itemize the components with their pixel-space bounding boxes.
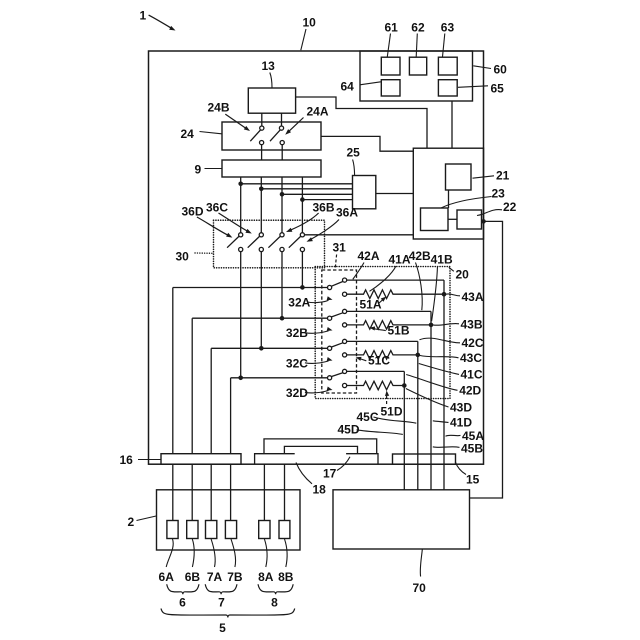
label 45B leader xyxy=(433,442,484,456)
junction dot wire 2 xyxy=(259,187,264,192)
label 32B with arrow xyxy=(286,326,333,340)
label 23 leader xyxy=(441,187,505,209)
svg-text:60: 60 xyxy=(494,63,508,77)
svg-text:2: 2 xyxy=(128,515,135,529)
wire switch 24B to box 9 xyxy=(261,145,263,160)
svg-text:51C: 51C xyxy=(368,354,390,368)
label 24A with arrow xyxy=(284,105,329,137)
svg-text:36D: 36D xyxy=(182,205,204,219)
label 42B leader xyxy=(409,249,431,310)
label 6B leader xyxy=(185,539,201,584)
svg-text:8B: 8B xyxy=(278,570,294,584)
wire junction 2 to box 25 xyxy=(261,188,352,190)
label 31 dashed leader xyxy=(333,241,347,269)
dashed box 31 xyxy=(322,270,357,393)
label 7A leader xyxy=(207,539,223,584)
svg-text:24B: 24B xyxy=(208,101,230,115)
brace group 7 xyxy=(205,584,237,609)
wire left bus C down to bar 16 xyxy=(210,348,212,453)
junction dot wire 1 xyxy=(238,182,243,187)
junction dot wire 3 xyxy=(280,192,285,197)
junction dot row feed 36C xyxy=(259,346,264,351)
label 43B leader xyxy=(433,318,483,332)
sub-box 62 xyxy=(409,57,426,75)
label 36B with arrow xyxy=(285,201,335,234)
svg-text:7A: 7A xyxy=(207,570,223,584)
label 51C with arrow xyxy=(355,354,390,368)
resistor 51B xyxy=(347,321,431,330)
wire bar16 to terminal 7A xyxy=(210,464,212,520)
svg-text:6: 6 xyxy=(179,596,186,610)
dotted box 30 xyxy=(214,220,325,268)
label 42A leader xyxy=(353,249,380,279)
wire switch 36A down to row xyxy=(301,252,303,288)
svg-text:36C: 36C xyxy=(206,201,228,215)
wire box21 to box23 xyxy=(448,190,450,208)
resistor 51D xyxy=(347,381,405,390)
bar 17 left segment xyxy=(255,454,295,465)
wire box13 to controller box staircase xyxy=(296,97,427,148)
svg-text:51B: 51B xyxy=(388,324,410,338)
wire bar16 to terminal 6B xyxy=(191,464,193,520)
sub-box 61 xyxy=(381,57,400,75)
junction dot row feed 36D xyxy=(238,376,243,381)
wire bar16 to terminal 7B xyxy=(230,464,232,520)
svg-text:30: 30 xyxy=(176,250,190,264)
wire bar16 to terminal 6A xyxy=(172,464,174,520)
switch 32A xyxy=(328,278,347,296)
svg-text:43C: 43C xyxy=(460,351,482,365)
svg-text:21: 21 xyxy=(496,169,510,183)
wire box22 to border node xyxy=(482,220,484,222)
wire row A input from left bus xyxy=(173,287,328,289)
label 10 leader xyxy=(301,16,316,51)
box 9 xyxy=(222,160,321,177)
label 25 leader xyxy=(347,146,361,176)
label 36A with arrow xyxy=(306,206,359,244)
wire node to box 70 xyxy=(470,221,503,498)
label 51A with arrow xyxy=(360,295,388,312)
svg-text:41D: 41D xyxy=(450,416,472,430)
wire switch 24A to box 9 xyxy=(281,145,283,160)
box 2 xyxy=(157,490,301,550)
label 42C leader xyxy=(420,336,484,350)
label 9 leader xyxy=(195,163,222,177)
wire box13 to switch 24A xyxy=(281,113,283,126)
wire bar17 to terminal 8A xyxy=(263,464,265,520)
box 13 xyxy=(248,88,295,113)
connector cover 18 outer xyxy=(264,439,377,454)
svg-text:62: 62 xyxy=(411,21,425,35)
switch 24A xyxy=(270,126,284,145)
junction dot 43C xyxy=(416,353,421,358)
svg-text:18: 18 xyxy=(313,483,327,497)
svg-text:22: 22 xyxy=(503,200,517,214)
resistor 51C xyxy=(347,351,418,360)
label 32D with arrow xyxy=(286,386,333,400)
switch 32D xyxy=(328,369,347,387)
wire left bus B down to bar 16 xyxy=(191,318,193,454)
svg-text:45C: 45C xyxy=(357,410,379,424)
bar 16 xyxy=(161,454,241,465)
wire direct path 42A xyxy=(347,279,444,281)
svg-text:9: 9 xyxy=(195,163,202,177)
label 8A leader xyxy=(258,539,274,584)
svg-text:1: 1 xyxy=(140,9,147,23)
svg-text:42C: 42C xyxy=(462,336,484,350)
sub-box 63 xyxy=(438,57,457,75)
wire box9 output 3 down to switch 36 xyxy=(281,177,283,233)
sub-box 65 xyxy=(438,80,457,96)
wire box13 to switch 24B xyxy=(261,113,263,126)
connector cover 18 inner xyxy=(284,446,357,453)
wire junction 4 to box 25 xyxy=(302,199,352,201)
switch 32C xyxy=(328,339,347,357)
label 8B leader xyxy=(278,539,294,584)
bus 45D vertical down to bar 15 and box 70 xyxy=(403,371,405,489)
svg-text:31: 31 xyxy=(333,241,347,255)
bar 15 xyxy=(393,454,456,464)
label 1 with arrow xyxy=(140,9,177,33)
junction dot 43A xyxy=(442,292,447,297)
wire box9 output 4 down to switch 36 xyxy=(301,177,303,233)
junction dot row feed 36A xyxy=(300,285,305,290)
terminal 6B xyxy=(187,521,198,539)
wire box24 to controller box xyxy=(321,136,413,151)
wire box25 to controller box xyxy=(376,193,414,195)
label 7B leader xyxy=(227,539,243,584)
svg-text:64: 64 xyxy=(341,80,355,94)
label 45D leader xyxy=(338,423,403,437)
label 18 leader xyxy=(296,463,326,497)
svg-text:24: 24 xyxy=(181,127,195,141)
label 51D with dashed arrow xyxy=(381,390,403,418)
wire junction 1 to box 25 xyxy=(241,183,353,185)
junction dot 43D xyxy=(402,383,407,388)
dotted box 20 xyxy=(315,267,450,399)
svg-text:25: 25 xyxy=(347,146,361,160)
switch 36A xyxy=(289,233,305,252)
module box 60 xyxy=(360,51,473,101)
wire direct path 42B xyxy=(347,310,431,312)
wire direct path 42C xyxy=(347,340,418,342)
svg-text:13: 13 xyxy=(262,59,276,73)
box 25 xyxy=(353,176,376,209)
box 23 xyxy=(421,208,449,231)
bar 17 right segment xyxy=(346,454,378,465)
svg-text:10: 10 xyxy=(303,16,317,30)
label 43A leader xyxy=(446,290,484,304)
svg-text:51D: 51D xyxy=(381,405,403,419)
label 41C leader xyxy=(419,364,483,382)
label 70 leader xyxy=(413,549,427,595)
label 36D with arrow xyxy=(182,205,234,240)
wire box9 output 2 down to switch 36 xyxy=(260,177,262,233)
wire junction 3 to box 25 xyxy=(282,193,353,195)
svg-text:17: 17 xyxy=(323,467,337,481)
svg-text:70: 70 xyxy=(413,581,427,595)
label 51B with arrow xyxy=(369,324,410,338)
label 45C leader xyxy=(357,410,417,424)
svg-text:41B: 41B xyxy=(431,253,453,267)
junction dot wire 4 xyxy=(300,197,305,202)
wire switch 36D down to row xyxy=(240,252,242,378)
svg-text:42B: 42B xyxy=(409,249,431,263)
wire box9 output 1 down to switch 36 xyxy=(240,177,242,233)
terminal 7B xyxy=(225,521,236,539)
label 62 leader xyxy=(411,21,425,57)
svg-text:43B: 43B xyxy=(461,318,483,332)
svg-text:42D: 42D xyxy=(459,384,481,398)
svg-text:45B: 45B xyxy=(461,442,483,456)
label 42D leader xyxy=(406,375,481,398)
svg-text:41A: 41A xyxy=(389,253,411,267)
label 22 leader xyxy=(477,200,517,216)
svg-text:61: 61 xyxy=(385,21,399,35)
label 43D leader xyxy=(406,389,473,415)
label 21 leader xyxy=(473,169,510,183)
wire box23 to box22 xyxy=(448,218,457,220)
label 16 leader xyxy=(120,453,161,467)
svg-text:42A: 42A xyxy=(358,249,380,263)
bus 45C vertical down to bar 15 and box 70 xyxy=(417,341,419,489)
box 22 xyxy=(457,210,482,229)
wire left bus D down to bar 16 xyxy=(230,378,232,454)
node on border xyxy=(481,219,486,224)
label 65 leader xyxy=(458,82,504,96)
svg-text:36A: 36A xyxy=(336,206,358,220)
svg-text:8: 8 xyxy=(271,596,278,610)
label 43C leader xyxy=(420,351,483,365)
svg-text:8A: 8A xyxy=(258,570,274,584)
box 70 xyxy=(333,490,470,549)
switch 32B xyxy=(328,309,347,327)
controller box xyxy=(413,148,483,239)
svg-text:5: 5 xyxy=(219,621,226,635)
label 13 leader xyxy=(262,59,276,88)
svg-text:6B: 6B xyxy=(185,570,201,584)
svg-text:63: 63 xyxy=(441,21,455,35)
switch 24B xyxy=(250,126,264,145)
svg-text:23: 23 xyxy=(492,187,506,201)
label 32C with arrow xyxy=(286,356,333,370)
junction dot 43B xyxy=(429,323,434,328)
svg-text:7B: 7B xyxy=(227,570,243,584)
svg-text:15: 15 xyxy=(466,473,480,487)
label 24B with arrow xyxy=(208,101,252,133)
box 21 xyxy=(446,164,472,190)
wire left bus A down to bar 16 xyxy=(172,288,174,454)
switch 36C xyxy=(248,233,264,252)
wire bar17 to terminal 8B xyxy=(284,464,286,520)
brace group 8 xyxy=(258,584,293,609)
label 41A leader xyxy=(370,253,411,292)
label 20 leader xyxy=(449,267,469,281)
svg-text:45D: 45D xyxy=(338,423,360,437)
wire box60 to controller box xyxy=(451,101,453,148)
brace group 5 xyxy=(161,609,295,636)
svg-text:65: 65 xyxy=(491,82,505,96)
terminal 7A xyxy=(206,521,217,539)
switch 36D xyxy=(227,233,243,252)
label 41B leader xyxy=(431,253,453,322)
label 2 leader xyxy=(128,515,157,529)
terminal 6A xyxy=(167,521,178,539)
svg-text:43A: 43A xyxy=(462,290,484,304)
svg-text:24A: 24A xyxy=(307,105,329,119)
terminal 8B xyxy=(279,521,290,539)
label 32A with arrow xyxy=(288,296,333,310)
svg-text:43D: 43D xyxy=(450,401,472,415)
bus 45A vertical down to bar 15 and box 70 xyxy=(443,280,445,490)
label 41D leader xyxy=(433,416,473,430)
wire switch 36B down to row xyxy=(281,252,283,319)
label 15 leader xyxy=(455,462,479,487)
svg-text:36B: 36B xyxy=(313,201,335,215)
switch 36B xyxy=(268,233,284,252)
svg-text:41C: 41C xyxy=(461,368,483,382)
wire row C input from left bus xyxy=(211,347,327,349)
wire switch 36A top to controller box xyxy=(305,234,414,236)
svg-text:16: 16 xyxy=(120,453,134,467)
label 24 leader xyxy=(181,127,222,141)
resistor 51A xyxy=(347,290,444,299)
label 30 dotted leader xyxy=(176,250,213,264)
svg-text:51A: 51A xyxy=(360,298,382,312)
label 64 leader xyxy=(341,80,381,94)
svg-text:7: 7 xyxy=(218,596,225,610)
wire switch 36C down to row xyxy=(260,252,262,349)
label 60 leader xyxy=(473,63,507,77)
sub-box 64 xyxy=(381,80,400,96)
label 45A leader xyxy=(446,429,485,443)
wire direct path 42D xyxy=(347,370,405,372)
label 17 leader xyxy=(323,457,350,481)
terminal 8A xyxy=(259,521,270,539)
label 61 leader xyxy=(385,21,399,57)
brace group 6 xyxy=(167,584,199,609)
wire row B input from left bus xyxy=(192,317,327,319)
enclosure box 10 xyxy=(149,51,484,464)
label 63 leader xyxy=(441,21,455,57)
svg-text:6A: 6A xyxy=(159,570,175,584)
box 24 xyxy=(222,122,321,150)
wire row D input from left bus xyxy=(231,377,328,379)
label 6A leader xyxy=(159,539,175,584)
junction dot row feed 36B xyxy=(280,316,285,321)
label 36C with arrow xyxy=(206,201,253,236)
bus 45B vertical down to bar 15 and box 70 xyxy=(430,311,432,489)
svg-text:20: 20 xyxy=(456,268,470,282)
